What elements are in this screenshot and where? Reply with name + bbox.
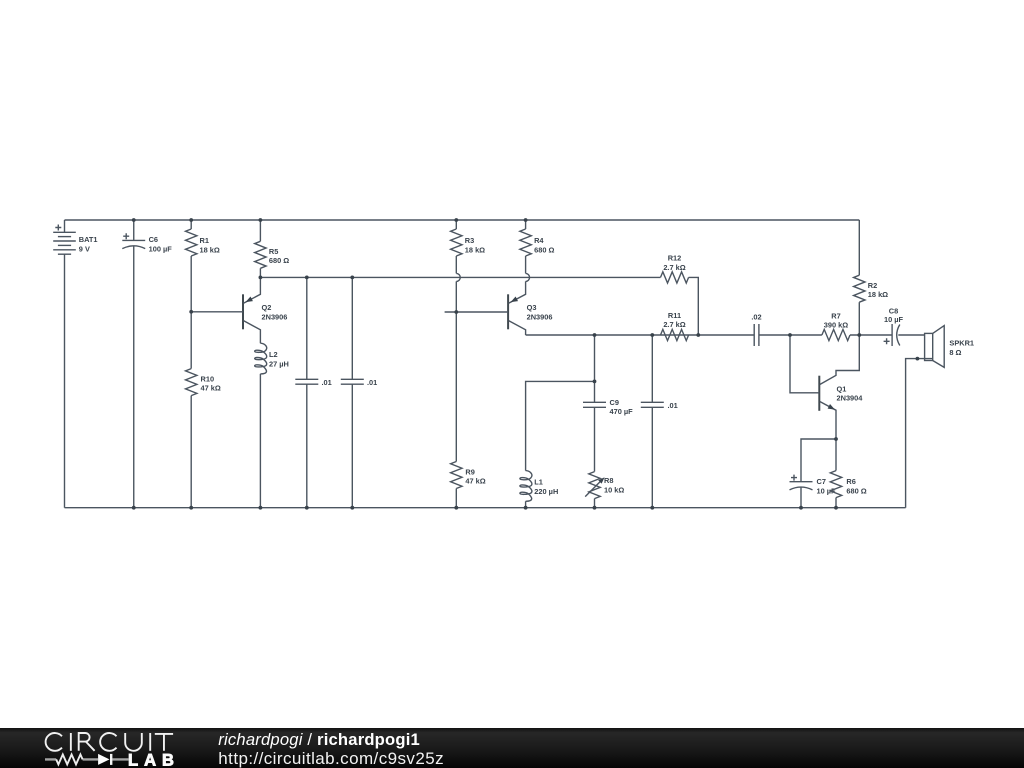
svg-text:680 Ω: 680 Ω [269, 256, 289, 265]
svg-text:.02: .02 [751, 313, 761, 322]
svg-text:BAT1: BAT1 [79, 235, 98, 244]
svg-text:Q2: Q2 [262, 303, 272, 312]
svg-text:10 kΩ: 10 kΩ [604, 485, 624, 494]
junction rail A 2 [305, 276, 309, 280]
capacitor .01 (second) [341, 277, 377, 507]
svg-text:470 µF: 470 µF [610, 407, 634, 416]
svg-text:27 µH: 27 µH [269, 359, 289, 368]
junction bottom rail 6 [454, 506, 458, 510]
junction bottom rail 4 [305, 506, 309, 510]
junction rail A 3 [350, 276, 354, 280]
svg-text:C6: C6 [149, 235, 158, 244]
junction L1 branch [593, 380, 597, 384]
resistor R12 [661, 254, 689, 284]
svg-text:Q1: Q1 [837, 384, 847, 393]
svg-text:R10: R10 [201, 374, 215, 383]
svg-text:C9: C9 [610, 398, 619, 407]
junction top rail 3 [259, 218, 263, 222]
resistor R6 [830, 439, 866, 508]
resistor R3 [451, 220, 486, 273]
wire rail B between R7 and C8 [850, 334, 892, 336]
battery BAT1 [53, 220, 97, 508]
junction top rail 5 [524, 218, 528, 222]
capacitor .02 [751, 313, 761, 347]
resistor R10 [186, 312, 221, 508]
svg-text:10 µF: 10 µF [884, 315, 904, 324]
svg-text:390 kΩ: 390 kΩ [824, 321, 848, 330]
logo wordmark CIRCUIT [46, 733, 174, 751]
svg-text:9 V: 9 V [79, 244, 90, 253]
junction rail B 3 [696, 333, 700, 337]
transistor Q1 (NPN 2N3904) [790, 335, 863, 439]
junction top rail 4 [454, 218, 458, 222]
svg-text:2N3906: 2N3906 [262, 312, 288, 321]
svg-text:47 kΩ: 47 kΩ [201, 384, 221, 393]
svg-text:2N3904: 2N3904 [837, 394, 864, 403]
transistor Q2 (PNP 2N3906) [191, 277, 287, 343]
transistor Q3 (PNP 2N3906) [445, 281, 553, 335]
wire rail B between .02 cap and R7 [759, 334, 822, 336]
capacitor C8 [884, 307, 904, 347]
svg-text:2.7 kΩ: 2.7 kΩ [663, 263, 685, 272]
svg-text:Q3: Q3 [527, 303, 537, 312]
wire rail B between C8 and speaker [898, 334, 924, 336]
junction rail B 2 [650, 333, 654, 337]
svg-text:100 µF: 100 µF [149, 244, 173, 253]
wire Q3 base stub [445, 311, 509, 313]
speaker SPKR1 [906, 326, 974, 508]
junction rail A 1 [259, 276, 263, 280]
capacitor C6 [122, 220, 172, 508]
resistor R9 [451, 312, 486, 508]
junction bottom rail 10 [799, 506, 803, 510]
svg-text:http://circuitlab.com/c9sv25z: http://circuitlab.com/c9sv25z [218, 749, 444, 768]
capacitor .01 (first) [295, 277, 331, 507]
junction rail B 5 [857, 333, 861, 337]
wire hop over rail A at R4 [526, 273, 530, 281]
logo resistor-diode glyph [45, 758, 129, 760]
wire speaker bottom return [906, 359, 932, 508]
wire L1 top link [526, 381, 595, 470]
junction top rail 1 [132, 218, 136, 222]
inductor L1 [520, 471, 558, 508]
wire bottom rail [65, 507, 906, 509]
wire Q1 base [790, 335, 819, 393]
svg-text:R12: R12 [668, 254, 682, 263]
svg-text:R7: R7 [831, 311, 840, 320]
junction bottom rail 1 [132, 506, 136, 510]
junction top rail 2 [189, 218, 193, 222]
svg-text:2.7 kΩ: 2.7 kΩ [663, 320, 685, 329]
svg-text:2N3906: 2N3906 [527, 312, 553, 321]
svg-text:R9: R9 [465, 467, 474, 476]
svg-text:L1: L1 [534, 478, 543, 487]
svg-text:18 kΩ: 18 kΩ [200, 246, 220, 255]
svg-text:R5: R5 [269, 247, 278, 256]
rheostat R8 [585, 472, 624, 508]
svg-text:680 Ω: 680 Ω [534, 246, 554, 255]
wire Q1 emitter [820, 402, 836, 440]
capacitor .01 (third) [641, 335, 678, 508]
wire Q3 collector [509, 321, 526, 335]
svg-text:C7: C7 [817, 477, 826, 486]
svg-text:R2: R2 [868, 281, 877, 290]
resistor R11 [661, 311, 689, 341]
svg-text:680 Ω: 680 Ω [846, 486, 866, 495]
wire hop over rail A at R3 [456, 273, 460, 281]
svg-text:R1: R1 [200, 236, 209, 245]
svg-text:10 µF: 10 µF [817, 486, 837, 495]
resistor R2 [854, 220, 889, 335]
inductor L2 [255, 343, 289, 508]
svg-text:220 µH: 220 µH [534, 487, 558, 496]
svg-text:R3: R3 [465, 236, 474, 245]
junction bottom rail 2 [189, 506, 193, 510]
svg-text:L2: L2 [269, 350, 278, 359]
svg-text:R6: R6 [846, 477, 855, 486]
svg-text:richardpogi / richardpogi1: richardpogi / richardpogi1 [218, 730, 420, 749]
junction speaker return [916, 357, 920, 361]
junction bottom rail 3 [259, 506, 263, 510]
svg-text:8 Ω: 8 Ω [949, 348, 961, 357]
junction bottom rail 11 [834, 506, 838, 510]
svg-text:R11: R11 [668, 311, 681, 320]
junction bottom rail 9 [650, 506, 654, 510]
junction rail B 4 [788, 333, 792, 337]
svg-text:47 kΩ: 47 kΩ [465, 477, 485, 486]
junction Q1 emitter node [834, 437, 838, 441]
wire top rail [65, 219, 860, 221]
resistor R7 [822, 311, 850, 340]
wire R3 to Q3 base node [455, 281, 457, 312]
resistor R5 [255, 220, 290, 277]
svg-text:R8: R8 [604, 476, 613, 485]
wire rail B (Q3 collector row) [526, 334, 755, 336]
wire rail A (R5/R12 row) [260, 276, 660, 278]
wire Q2 base [191, 311, 243, 313]
svg-text:.01: .01 [668, 401, 678, 410]
wire Q2 emitter riser [244, 277, 261, 303]
wire emitter node to C7 [801, 439, 836, 482]
svg-text:18 kΩ: 18 kΩ [868, 290, 888, 299]
junction Q3 base node [454, 310, 458, 314]
wire rail A right of R12 + drop to rail B [689, 277, 699, 335]
wire Q2 collector [244, 321, 261, 344]
resistor R4 [520, 220, 555, 273]
svg-text:SPKR1: SPKR1 [949, 339, 974, 348]
svg-text:R4: R4 [534, 236, 544, 245]
wire Q3 emitter riser [509, 281, 526, 303]
junction bottom rail 8 [593, 506, 597, 510]
svg-text:.01: .01 [322, 378, 332, 387]
junction bottom rail 7 [524, 506, 528, 510]
resistor R1 [186, 220, 220, 312]
wire Q1 collector [820, 335, 860, 385]
junction rail B 1 [593, 333, 597, 337]
junction bottom rail 5 [350, 506, 354, 510]
capacitor C9 [583, 335, 633, 472]
svg-text:LAB: LAB [128, 751, 180, 768]
junction Q2 base node [189, 310, 193, 314]
svg-text:18 kΩ: 18 kΩ [465, 246, 485, 255]
capacitor C7 [790, 475, 837, 508]
svg-text:.01: .01 [367, 378, 377, 387]
